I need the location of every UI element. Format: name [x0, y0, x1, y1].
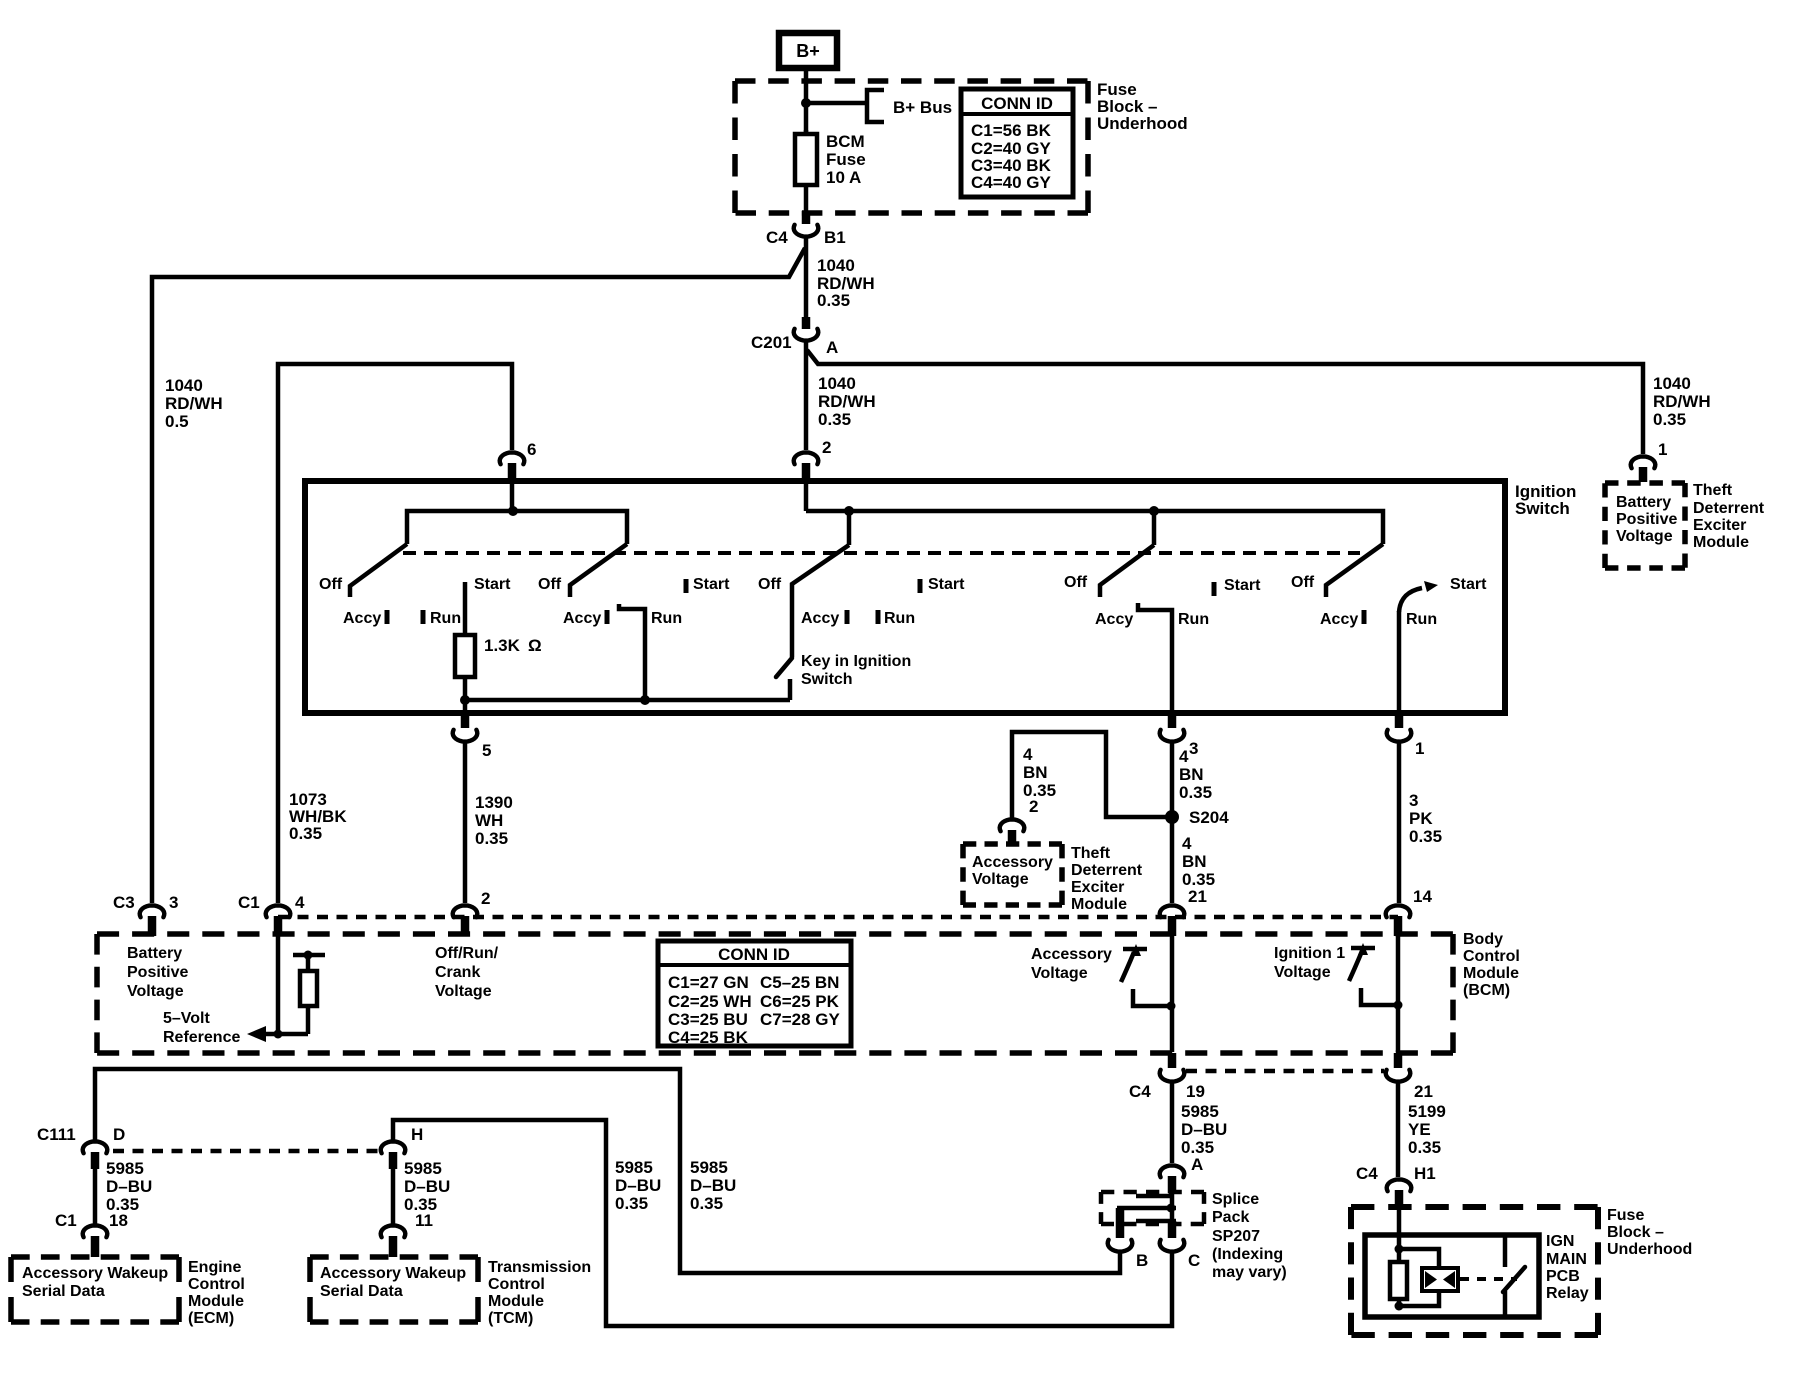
svg-text:C6=25 PK: C6=25 PK: [760, 992, 840, 1011]
svg-text:Run: Run: [430, 610, 461, 627]
svg-text:B+: B+: [796, 41, 820, 61]
wire to B+ bus: [806, 101, 867, 106]
svg-text:BCM: BCM: [826, 132, 865, 151]
svg-text:Splice: Splice: [1212, 1191, 1259, 1208]
theft deterrent exciter module dashed box (top right): [1605, 480, 1685, 486]
svg-text:C111: C111: [37, 1125, 76, 1144]
svg-text:C5–25 BN: C5–25 BN: [760, 973, 839, 992]
svg-text:Voltage: Voltage: [1274, 964, 1331, 981]
svg-text:Underhood: Underhood: [1097, 114, 1188, 133]
transmission control module dashed box: [310, 1254, 478, 1260]
svg-text:Run: Run: [884, 610, 915, 627]
svg-text:BN: BN: [1179, 765, 1204, 784]
junction dot wiper 4 feed: [1149, 506, 1159, 516]
svg-text:SP207: SP207: [1212, 1228, 1260, 1245]
svg-text:Accy: Accy: [1320, 611, 1358, 628]
connector BCM pin C4-19: [1168, 1053, 1177, 1068]
svg-text:Deterrent: Deterrent: [1071, 862, 1143, 879]
svg-text:Module: Module: [188, 1293, 244, 1310]
svg-text:Start: Start: [693, 576, 730, 593]
svg-text:Switch: Switch: [801, 671, 853, 688]
relay contact fixed: [1503, 1235, 1508, 1267]
svg-text:Battery: Battery: [1616, 494, 1671, 511]
svg-text:D–BU: D–BU: [690, 1176, 736, 1195]
svg-text:Voltage: Voltage: [1616, 528, 1673, 545]
svg-text:B+ Bus: B+ Bus: [893, 98, 952, 117]
connector ECM pin 18: [83, 1225, 108, 1237]
wire branch from C201 to theft module (1040 RD/WH 0.35): [807, 350, 1643, 454]
splice bus bar 1: [1136, 1194, 1170, 1199]
svg-text:Ω: Ω: [528, 636, 542, 655]
svg-text:B1: B1: [824, 228, 846, 247]
connector C111 pin H: [381, 1141, 406, 1153]
splice pin C stub: [1168, 1221, 1177, 1238]
svg-text:Control: Control: [1463, 948, 1520, 965]
svg-text:C4=40 GY: C4=40 GY: [971, 173, 1052, 192]
connector ignition switch pin 2: [794, 452, 819, 464]
svg-text:Crank: Crank: [435, 964, 480, 981]
BCM connector dotted line (top): [278, 915, 1398, 920]
svg-text:Control: Control: [188, 1276, 245, 1293]
switch gang dashed line: [403, 551, 1360, 555]
svg-text:H1: H1: [1414, 1164, 1436, 1183]
svg-text:PK: PK: [1409, 809, 1433, 828]
junction dot run 2: [640, 695, 650, 705]
contact tick Accy 3: [845, 610, 850, 624]
svg-text:0.35: 0.35: [1653, 410, 1686, 429]
svg-text:D: D: [113, 1125, 125, 1144]
svg-text:Deterrent: Deterrent: [1693, 500, 1765, 517]
svg-text:0.35: 0.35: [690, 1194, 723, 1213]
svg-text:4: 4: [1023, 745, 1033, 764]
relay coil branch: [1399, 1249, 1439, 1269]
svg-text:18: 18: [109, 1211, 128, 1230]
connector fuse block pin H1: [1387, 1179, 1412, 1191]
CONN ID table fuse block: [961, 89, 1073, 197]
connector C111 pin D: [83, 1141, 108, 1153]
contact tick Start 4: [1212, 582, 1217, 596]
svg-text:Fuse: Fuse: [1607, 1207, 1644, 1224]
svg-text:1040: 1040: [1653, 374, 1691, 393]
svg-text:5: 5: [482, 741, 491, 760]
connector TCM pin 11: [381, 1225, 406, 1237]
svg-text:Theft: Theft: [1071, 845, 1111, 862]
svg-text:Off/Run/: Off/Run/: [435, 945, 499, 962]
svg-text:14: 14: [1413, 887, 1432, 906]
svg-text:19: 19: [1186, 1082, 1205, 1101]
connector BCM pin 2: [453, 905, 478, 917]
C111 connector dotted line: [113, 1149, 380, 1154]
wire BCM C1-4 to ignition switch pin 6: [278, 364, 512, 903]
svg-text:C3: C3: [113, 893, 135, 912]
connector pin 5: [461, 714, 470, 728]
junction dot accessory switch: [1167, 1002, 1176, 1011]
svg-text:B: B: [1136, 1251, 1148, 1270]
svg-text:3: 3: [1409, 791, 1418, 810]
junction dot relay top: [1395, 1245, 1404, 1254]
svg-text:Off: Off: [758, 576, 782, 593]
svg-text:Off: Off: [319, 576, 343, 593]
connector BCM pin 21 (bottom): [1394, 1053, 1403, 1068]
svg-text:C4: C4: [1129, 1082, 1151, 1101]
connector BCM pin 21: [1160, 905, 1185, 917]
BCM internal resistor: [306, 955, 311, 974]
svg-text:5985: 5985: [690, 1158, 728, 1177]
contact Start 1 wire: [463, 582, 468, 638]
connector splice pack pin C: [1160, 1240, 1185, 1252]
svg-text:Module: Module: [1071, 896, 1127, 913]
svg-text:C201: C201: [751, 333, 792, 352]
svg-text:Control: Control: [488, 1276, 545, 1293]
connector C201 pin A: [802, 317, 811, 329]
svg-text:D–BU: D–BU: [404, 1177, 450, 1196]
connector theft module pin 1: [1631, 456, 1656, 468]
accessory voltage module dashed box: [963, 841, 1062, 847]
svg-text:C1: C1: [238, 893, 260, 912]
B+ Bus terminal bracket: [867, 90, 884, 122]
contact Run 4: [1138, 603, 1172, 713]
svg-text:4: 4: [1182, 834, 1192, 853]
svg-text:6: 6: [527, 440, 536, 459]
svg-text:Off: Off: [1064, 574, 1088, 591]
svg-text:0.5: 0.5: [165, 412, 189, 431]
junction dot pin 6 bracket: [508, 506, 518, 516]
junction dot B+ bus: [801, 98, 811, 108]
wire branch from B1 to BCM C3 (1040 RD/WH 0.5): [152, 248, 805, 903]
contact tick Run 3: [876, 610, 881, 624]
svg-text:Exciter: Exciter: [1071, 879, 1124, 896]
splice bus bar 3: [1136, 1219, 1176, 1224]
svg-text:MAIN: MAIN: [1546, 1251, 1587, 1268]
connector splice pack pin A: [1160, 1165, 1185, 1177]
svg-text:C1=56 BK: C1=56 BK: [971, 121, 1052, 140]
junction dot ignition 1 switch: [1394, 1001, 1403, 1010]
svg-text:Off: Off: [538, 576, 562, 593]
svg-text:2: 2: [1029, 797, 1038, 816]
contact Run 2: [619, 604, 645, 700]
connector C4 pin B1: [802, 211, 811, 224]
svg-text:21: 21: [1414, 1082, 1433, 1101]
wire pin 2 into box: [804, 480, 809, 511]
svg-text:5985: 5985: [615, 1158, 653, 1177]
svg-text:(Indexing: (Indexing: [1212, 1246, 1283, 1263]
svg-text:C1=27 GN: C1=27 GN: [668, 973, 749, 992]
key-in-ignition switch blade: [776, 658, 792, 677]
relay contact blade: [1503, 1267, 1525, 1292]
svg-text:A: A: [826, 338, 838, 357]
svg-text:Accessory Wakeup: Accessory Wakeup: [22, 1265, 168, 1282]
svg-text:Block –: Block –: [1607, 1224, 1664, 1241]
svg-text:Body: Body: [1463, 931, 1503, 948]
CONN ID table BCM: [658, 941, 851, 1046]
svg-text:C7=28 GY: C7=28 GY: [760, 1010, 841, 1029]
svg-text:3: 3: [169, 893, 178, 912]
wire BCM pin 4 internal: [276, 936, 281, 1034]
svg-text:0.35: 0.35: [817, 291, 850, 310]
relay coil symbol: [1422, 1268, 1458, 1291]
svg-text:RD/WH: RD/WH: [818, 392, 876, 411]
wire H1 into relay: [1397, 1209, 1402, 1264]
svg-text:0.35: 0.35: [1179, 783, 1212, 802]
fuse block underhood dashed box (bottom): [1351, 1204, 1598, 1210]
svg-text:5199: 5199: [1408, 1102, 1446, 1121]
svg-text:0.35: 0.35: [289, 824, 322, 843]
ignition switch box: [305, 481, 1505, 713]
svg-text:Accy: Accy: [801, 610, 839, 627]
junction dot start line: [460, 695, 470, 705]
svg-text:WH: WH: [475, 811, 503, 830]
svg-text:5985: 5985: [1181, 1102, 1219, 1121]
svg-text:PCB: PCB: [1546, 1268, 1580, 1285]
wire resistor to junction: [463, 677, 468, 713]
wire fuse to connector C4 B1: [804, 190, 809, 212]
svg-text:D–BU: D–BU: [615, 1176, 661, 1195]
battery positive B+ power symbol: [779, 33, 837, 68]
wiper blade 3: [792, 545, 849, 657]
svg-text:(TCM): (TCM): [488, 1310, 533, 1327]
contact Run 5 wire: [1397, 611, 1402, 713]
svg-text:0.35: 0.35: [615, 1194, 648, 1213]
svg-text:0.35: 0.35: [1408, 1138, 1441, 1157]
body control module dashed box: [97, 931, 1453, 937]
connector pin 1: [1395, 714, 1404, 728]
junction dot wiper 3 feed: [844, 506, 854, 516]
5-volt reference arrow: [247, 1026, 266, 1042]
junction dot splice: [1167, 1204, 1176, 1213]
svg-text:Accessory: Accessory: [972, 854, 1053, 871]
svg-text:Accy: Accy: [563, 610, 601, 627]
switch bottom wire: [465, 698, 790, 703]
svg-text:Voltage: Voltage: [435, 983, 492, 1000]
svg-text:C1: C1: [55, 1211, 77, 1230]
switch feed line (pin 2): [806, 511, 1383, 544]
svg-text:Fuse: Fuse: [826, 150, 866, 169]
svg-text:4: 4: [1179, 747, 1189, 766]
connector splice pack pin B: [1108, 1240, 1133, 1252]
svg-text:C4: C4: [766, 228, 788, 247]
connector ignition switch pin 6: [500, 452, 525, 464]
junction dot relay bottom: [1395, 1302, 1404, 1311]
contact tick Accy 5: [1362, 610, 1367, 624]
svg-text:H: H: [411, 1125, 423, 1144]
svg-text:Ignition 1: Ignition 1: [1274, 945, 1345, 962]
svg-text:Engine: Engine: [188, 1259, 241, 1276]
svg-text:5985: 5985: [404, 1159, 442, 1178]
svg-text:C: C: [1188, 1251, 1200, 1270]
svg-text:1: 1: [1415, 739, 1424, 758]
svg-text:Run: Run: [651, 610, 682, 627]
svg-text:5–Volt: 5–Volt: [163, 1010, 211, 1027]
5-volt reference wire: [255, 1032, 308, 1037]
svg-text:Relay: Relay: [1546, 1285, 1589, 1302]
svg-text:Theft: Theft: [1693, 482, 1733, 499]
splice bus bar 2: [1117, 1206, 1176, 1211]
svg-text:3: 3: [1189, 739, 1198, 758]
svg-text:Serial Data: Serial Data: [320, 1283, 403, 1300]
svg-text:Reference: Reference: [163, 1029, 240, 1046]
svg-text:BN: BN: [1182, 852, 1207, 871]
svg-text:0.35: 0.35: [1023, 781, 1056, 800]
svg-text:2: 2: [822, 438, 831, 457]
svg-text:0.35: 0.35: [1409, 827, 1442, 846]
svg-text:4: 4: [295, 893, 305, 912]
svg-text:Pack: Pack: [1212, 1209, 1249, 1226]
svg-text:S204: S204: [1189, 808, 1229, 827]
start return blade 5: [1399, 588, 1422, 612]
wiper blade 5: [1326, 544, 1383, 597]
wiper blade 1: [350, 544, 407, 597]
BCM internal resistor top bar: [293, 953, 325, 958]
svg-text:Accy: Accy: [343, 610, 381, 627]
connector BCM pin 14: [1386, 905, 1411, 917]
svg-text:Module: Module: [1463, 965, 1519, 982]
wiper blade 4: [1100, 545, 1154, 597]
wire B+ to fuse: [804, 68, 809, 136]
wire splice B to C111 D (5985 D-BU 0.35): [95, 1069, 1120, 1273]
svg-text:Positive: Positive: [127, 964, 188, 981]
svg-text:Accessory Wakeup: Accessory Wakeup: [320, 1265, 466, 1282]
svg-text:1040: 1040: [817, 256, 855, 275]
svg-text:RD/WH: RD/WH: [1653, 392, 1711, 411]
svg-text:BN: BN: [1023, 763, 1048, 782]
junction dot pin4/5V: [274, 1030, 283, 1039]
wiper blade 2: [570, 544, 627, 597]
connector BCM pin C3-3: [140, 905, 165, 917]
svg-text:Voltage: Voltage: [972, 871, 1029, 888]
svg-text:1390: 1390: [475, 793, 513, 812]
relay contact bottom: [1503, 1291, 1508, 1317]
connector accessory module pin 2: [1000, 819, 1025, 831]
IGN MAIN PCB relay box: [1365, 1235, 1539, 1317]
svg-text:1040: 1040: [165, 376, 203, 395]
splice S204: [1165, 810, 1179, 824]
wiper 3 feed leg: [847, 511, 852, 545]
svg-text:YE: YE: [1408, 1120, 1431, 1139]
BCM bottom connector dotted line: [1186, 1069, 1384, 1074]
svg-text:CONN ID: CONN ID: [718, 945, 790, 964]
svg-text:(BCM): (BCM): [1463, 982, 1510, 999]
svg-text:A: A: [1191, 1155, 1203, 1174]
svg-text:D–BU: D–BU: [1181, 1120, 1227, 1139]
svg-text:Serial Data: Serial Data: [22, 1283, 105, 1300]
engine control module dashed box: [11, 1254, 179, 1260]
svg-text:Switch: Switch: [1515, 499, 1570, 518]
svg-text:Battery: Battery: [127, 945, 182, 962]
svg-text:5985: 5985: [106, 1159, 144, 1178]
svg-text:IGN: IGN: [1546, 1233, 1574, 1250]
svg-text:Module: Module: [488, 1293, 544, 1310]
svg-text:Underhood: Underhood: [1607, 1241, 1692, 1258]
svg-text:C4: C4: [1356, 1164, 1378, 1183]
ignition 1 voltage switch (BCM): [1351, 946, 1375, 951]
svg-text:Start: Start: [1450, 576, 1487, 593]
svg-text:1.3K: 1.3K: [484, 636, 521, 655]
connector BCM pin C1-4: [266, 905, 291, 917]
svg-text:Module: Module: [1693, 534, 1749, 551]
wiper 4 feed leg: [1152, 511, 1157, 545]
contact tick Accy 2: [605, 610, 610, 624]
svg-text:Voltage: Voltage: [1031, 965, 1088, 982]
svg-text:1: 1: [1658, 440, 1667, 459]
switch pole bracket (pin 6): [407, 511, 627, 544]
svg-text:21: 21: [1188, 887, 1207, 906]
key-in-ignition contact: [788, 679, 793, 700]
svg-text:Off: Off: [1291, 574, 1315, 591]
splice pin A internal wire: [1170, 1192, 1175, 1221]
connector pin 3: [1168, 714, 1177, 728]
svg-text:Voltage: Voltage: [127, 983, 184, 1000]
svg-text:Start: Start: [1224, 577, 1261, 594]
svg-text:C4=25 BK: C4=25 BK: [668, 1028, 749, 1047]
svg-text:10 A: 10 A: [826, 168, 861, 187]
wire S204 to accessory voltage module: [1012, 732, 1172, 818]
svg-text:C2=25 WH: C2=25 WH: [668, 992, 752, 1011]
fuse BCM Fuse 10A: [804, 130, 809, 190]
contact tick Start 2: [684, 579, 689, 593]
svg-text:may vary): may vary): [1212, 1264, 1287, 1281]
svg-text:Run: Run: [1406, 611, 1437, 628]
svg-text:RD/WH: RD/WH: [165, 394, 223, 413]
svg-text:11: 11: [415, 1211, 433, 1230]
wire BCM accessory voltage internal: [1170, 936, 1175, 1052]
wire pin 6 into box: [510, 480, 515, 511]
relay resistor: [1390, 1262, 1407, 1299]
svg-text:2: 2: [481, 889, 490, 908]
accessory voltage switch (BCM): [1123, 947, 1147, 952]
svg-text:(ECM): (ECM): [188, 1310, 234, 1327]
svg-text:Exciter: Exciter: [1693, 517, 1746, 534]
svg-text:CONN ID: CONN ID: [981, 94, 1053, 113]
fuse block underhood dashed box: [735, 78, 1088, 84]
contact tick Start 3: [918, 579, 923, 593]
contact tick Accy 1: [385, 610, 390, 624]
svg-text:Positive: Positive: [1616, 511, 1677, 528]
svg-text:0.35: 0.35: [818, 410, 851, 429]
relay mechanical link dashed: [1460, 1277, 1517, 1281]
svg-text:0.35: 0.35: [475, 829, 508, 848]
contact tick Run 1: [421, 610, 426, 624]
svg-text:Start: Start: [928, 576, 965, 593]
splice pack SP207 dashed box: [1101, 1190, 1204, 1195]
svg-text:D–BU: D–BU: [106, 1177, 152, 1196]
svg-text:Start: Start: [474, 576, 511, 593]
resistor 1.3K: [455, 635, 475, 677]
wire BCM ignition 1 voltage internal: [1396, 936, 1401, 1052]
wire splice C to TCM H (5985 D-BU 0.35): [393, 1120, 1172, 1326]
svg-text:Transmission: Transmission: [488, 1259, 591, 1276]
svg-text:Accy: Accy: [1095, 611, 1133, 628]
svg-text:1040: 1040: [818, 374, 856, 393]
svg-text:Run: Run: [1178, 611, 1209, 628]
svg-text:Accessory: Accessory: [1031, 946, 1112, 963]
svg-text:C3=25 BU: C3=25 BU: [668, 1010, 748, 1029]
splice pin B stub: [1116, 1208, 1125, 1238]
svg-text:Key in Ignition: Key in Ignition: [801, 653, 911, 670]
